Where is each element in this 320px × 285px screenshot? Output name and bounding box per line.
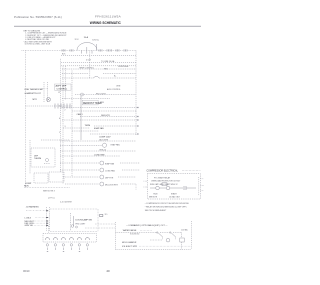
leader dots: [33, 218, 46, 226]
svg-text:4a: 4a: [97, 39, 99, 41]
relay box right: [49, 172, 64, 182]
wire row: [62, 73, 88, 75]
svg-text:SEE NOTE: SEE NOTE: [149, 197, 157, 199]
connector pin strip: [46, 207, 48, 231]
terminal bumps: [45, 238, 89, 240]
svg-text:MULLION HTR: MULLION HTR: [105, 184, 118, 186]
svg-text:ORN: ORN: [116, 86, 121, 88]
wire row: [62, 68, 136, 70]
svg-text:MOLD HEATER: MOLD HEATER: [122, 241, 137, 244]
svg-text:COND FAN: COND FAN: [94, 154, 105, 157]
switch symbols: [157, 232, 158, 233]
svg-text:COND FAN: COND FAN: [105, 169, 115, 172]
arrowheads: [137, 107, 138, 135]
svg-text:2: 2: [65, 110, 66, 112]
vertical: [29, 140, 31, 174]
leader dash-dot: [26, 210, 46, 212]
left entry stubs: [144, 180, 148, 182]
svg-text:4-16 GA WIRE: 4-16 GA WIRE: [60, 201, 73, 204]
svg-text:RUN: RUN: [153, 194, 158, 196]
svg-text:115: 115: [105, 214, 108, 216]
svg-text:3: 3: [65, 126, 66, 128]
wire row 141: [60, 140, 136, 142]
svg-text:J2: J2: [58, 92, 60, 94]
svg-text:Publication No. 5995523657 (6-: Publication No. 5995523657 (6-11): [14, 15, 62, 19]
svg-text:— ICEMAKER ( OPTIONAL EQUIP ): — ICEMAKER ( OPTIONAL EQUIP ) CKT —: [126, 224, 168, 227]
overload symbol: [166, 186, 170, 190]
icemaker motor: [166, 238, 170, 242]
vertical drop: [96, 44, 98, 51]
icemaker box right edge: [191, 221, 193, 250]
svg-text:TO LINE 16 GA: TO LINE 16 GA: [101, 60, 115, 63]
icemaker box left edge: [115, 222, 117, 250]
vertical drop from plug: [89, 51, 91, 80]
svg-text:FRZ LIGHT: FRZ LIGHT: [76, 224, 87, 226]
svg-text:GUARDETTE 61T: GUARDETTE 61T: [25, 92, 42, 95]
terminal board box: [43, 234, 97, 243]
svg-text:MTR: MTR: [33, 99, 38, 101]
wire L1 top bus: [22, 50, 137, 52]
wires inside compressor box: [150, 187, 156, 189]
relay box left: [34, 173, 48, 183]
svg-text:(4 POL): (4 POL): [48, 198, 55, 200]
power cord plug: [77, 43, 97, 54]
wire + motor row 5: [60, 169, 99, 171]
wire + motor row 7: [65, 183, 99, 185]
wire row: [75, 94, 136, 96]
vertical wire: [80, 96, 82, 140]
svg-text:4: 4: [59, 106, 60, 108]
svg-text:115 VAC: 115 VAC: [181, 228, 189, 231]
svg-text:AUG MTR: AUG MTR: [99, 138, 108, 141]
coil component: [180, 238, 185, 242]
wire ground bus: [61, 65, 136, 67]
svg-text:GRN YEL: GRN YEL: [25, 225, 35, 227]
svg-text:RUN CAP 5 MFD START WDG 12: RUN CAP 5 MFD START WDG 12: [150, 183, 178, 186]
wire row: [61, 62, 136, 64]
svg-text:SOLENOID: SOLENOID: [130, 234, 140, 236]
connector labels: [25, 217, 35, 227]
notes legend block: [24, 30, 68, 45]
wire row 3: [60, 155, 120, 157]
terminal contacts row 2: [46, 244, 88, 246]
svg-text:CAM 1: CAM 1: [77, 113, 84, 116]
svg-text:SEE TECH DATA SHEET: SEE TECH DATA SHEET: [145, 209, 167, 212]
svg-text:8PM: 8PM: [100, 102, 104, 104]
wire row 2: [60, 150, 136, 152]
svg-text:CONTROL: CONTROL: [57, 88, 68, 90]
svg-text:SEE NOTE 3: SEE NOTE 3: [43, 191, 56, 193]
right bus vertical: [135, 51, 137, 136]
wire + motor row 4: [60, 162, 99, 164]
capacitor symbol: [183, 186, 185, 190]
svg-text:ADPT DEF: ADPT DEF: [56, 85, 67, 88]
feed into terminal board: [48, 226, 50, 234]
svg-text:PTC START RELAY: PTC START RELAY: [154, 176, 171, 179]
svg-text:EVAP FAN: EVAP FAN: [111, 144, 121, 147]
svg-text:OVERLOAD PROTECTOR CKT 61T: OVERLOAD PROTECTOR CKT 61T: [151, 180, 181, 183]
svg-text:EVAP FAN: EVAP FAN: [105, 162, 115, 165]
svg-text:ORN-14: ORN-14: [99, 149, 106, 151]
svg-text:15 A: 15 A: [84, 36, 89, 39]
svg-text:• RELAY SHOWN DE-ENERGIZED (CO: • RELAY SHOWN DE-ENERGIZED (COMP OFF): [145, 206, 187, 209]
right exit stubs: [201, 178, 204, 180]
switch drop wires: [162, 237, 164, 240]
svg-text:• COMPRESSOR CIRCUIT SHOWN IN: • COMPRESSOR CIRCUIT SHOWN IN RUN MODE: [145, 203, 190, 205]
left bus vertical: [25, 51, 27, 188]
svg-text:ICE EJECT MTR: ICE EJECT MTR: [122, 246, 138, 248]
motor symbol: [47, 98, 51, 102]
svg-text:COMPRESSOR ELECTRICAL: COMPRESSOR ELECTRICAL: [147, 169, 179, 172]
lamp symbol: [81, 93, 84, 96]
leader: [42, 88, 48, 90]
terminal id specks: [47, 250, 80, 253]
header rule: [14, 25, 201, 27]
top dotted run: [50, 208, 98, 210]
svg-text:TERM: TERM: [85, 125, 91, 127]
svg-text:LINE THERMOSTAT: LINE THERMOSTAT: [25, 88, 44, 91]
vertical wire: [71, 71, 73, 178]
wire neutral bus: [61, 54, 136, 56]
wire + motor row 6: [63, 176, 99, 178]
dotted line: [24, 187, 70, 189]
short wires in center band: [62, 107, 137, 109]
svg-text:DEF HTR: DEF HTR: [105, 177, 114, 179]
defrost thermostat box: [31, 148, 55, 167]
wire + motor row 1: [60, 145, 102, 147]
svg-text:START: START: [171, 193, 178, 196]
terminal ticks below: [47, 248, 87, 251]
icemaker wire: [116, 232, 157, 234]
svg-text:THERM: THERM: [34, 158, 41, 160]
vertical wire pair: [60, 59, 62, 172]
svg-text:COMP 115V: COMP 115V: [99, 137, 111, 139]
svg-text:AUX CONTROL: AUX CONTROL: [107, 88, 121, 91]
connector strip: [26, 105, 73, 107]
svg-text:L1 BLK: L1 BLK: [25, 217, 32, 219]
svg-text:DOORS CLOSED, UNIT IDLE: DOORS CLOSED, UNIT IDLE: [25, 44, 51, 46]
svg-text:RUN: RUN: [24, 186, 29, 188]
bus pin ticks: [62, 49, 127, 51]
icemaker box bottom: [116, 249, 192, 251]
svg-text:WIRING SCHEMATIC: WIRING SCHEMATIC: [90, 21, 122, 25]
run winding symbol: [162, 183, 167, 186]
mid cluster: door switch: [70, 213, 72, 231]
vertical wire: [65, 66, 67, 100]
svg-text:1: 1: [59, 132, 60, 134]
svg-text:TEMP CONTROL: TEMP CONTROL: [79, 67, 94, 69]
vertical pair: [43, 82, 45, 102]
svg-text:WATER VALVE: WATER VALVE: [123, 229, 137, 232]
wire row: [62, 97, 110, 99]
svg-text:20: 20: [107, 269, 111, 273]
svg-text:6: 6: [59, 118, 60, 120]
compressor circuit box: [147, 174, 200, 199]
svg-text:FFHS2611LW5A: FFHS2611LW5A: [95, 15, 122, 19]
svg-text:EVAP FAN: EVAP FAN: [94, 127, 104, 130]
svg-text:06/10: 06/10: [23, 269, 30, 273]
svg-text:DOOR/LAMP SW: DOOR/LAMP SW: [76, 219, 92, 222]
pin numbers: [59, 106, 66, 135]
relay symbol: [156, 186, 160, 190]
small dark mark: [100, 215, 103, 217]
wire row with loop: [62, 77, 94, 79]
svg-text:CONT BLK: CONT BLK: [118, 66, 129, 68]
svg-text:J1 HARNESS: J1 HARNESS: [26, 206, 39, 209]
svg-text:DEF HTR: DEF HTR: [101, 115, 110, 117]
lower mid wires: [41, 139, 70, 141]
